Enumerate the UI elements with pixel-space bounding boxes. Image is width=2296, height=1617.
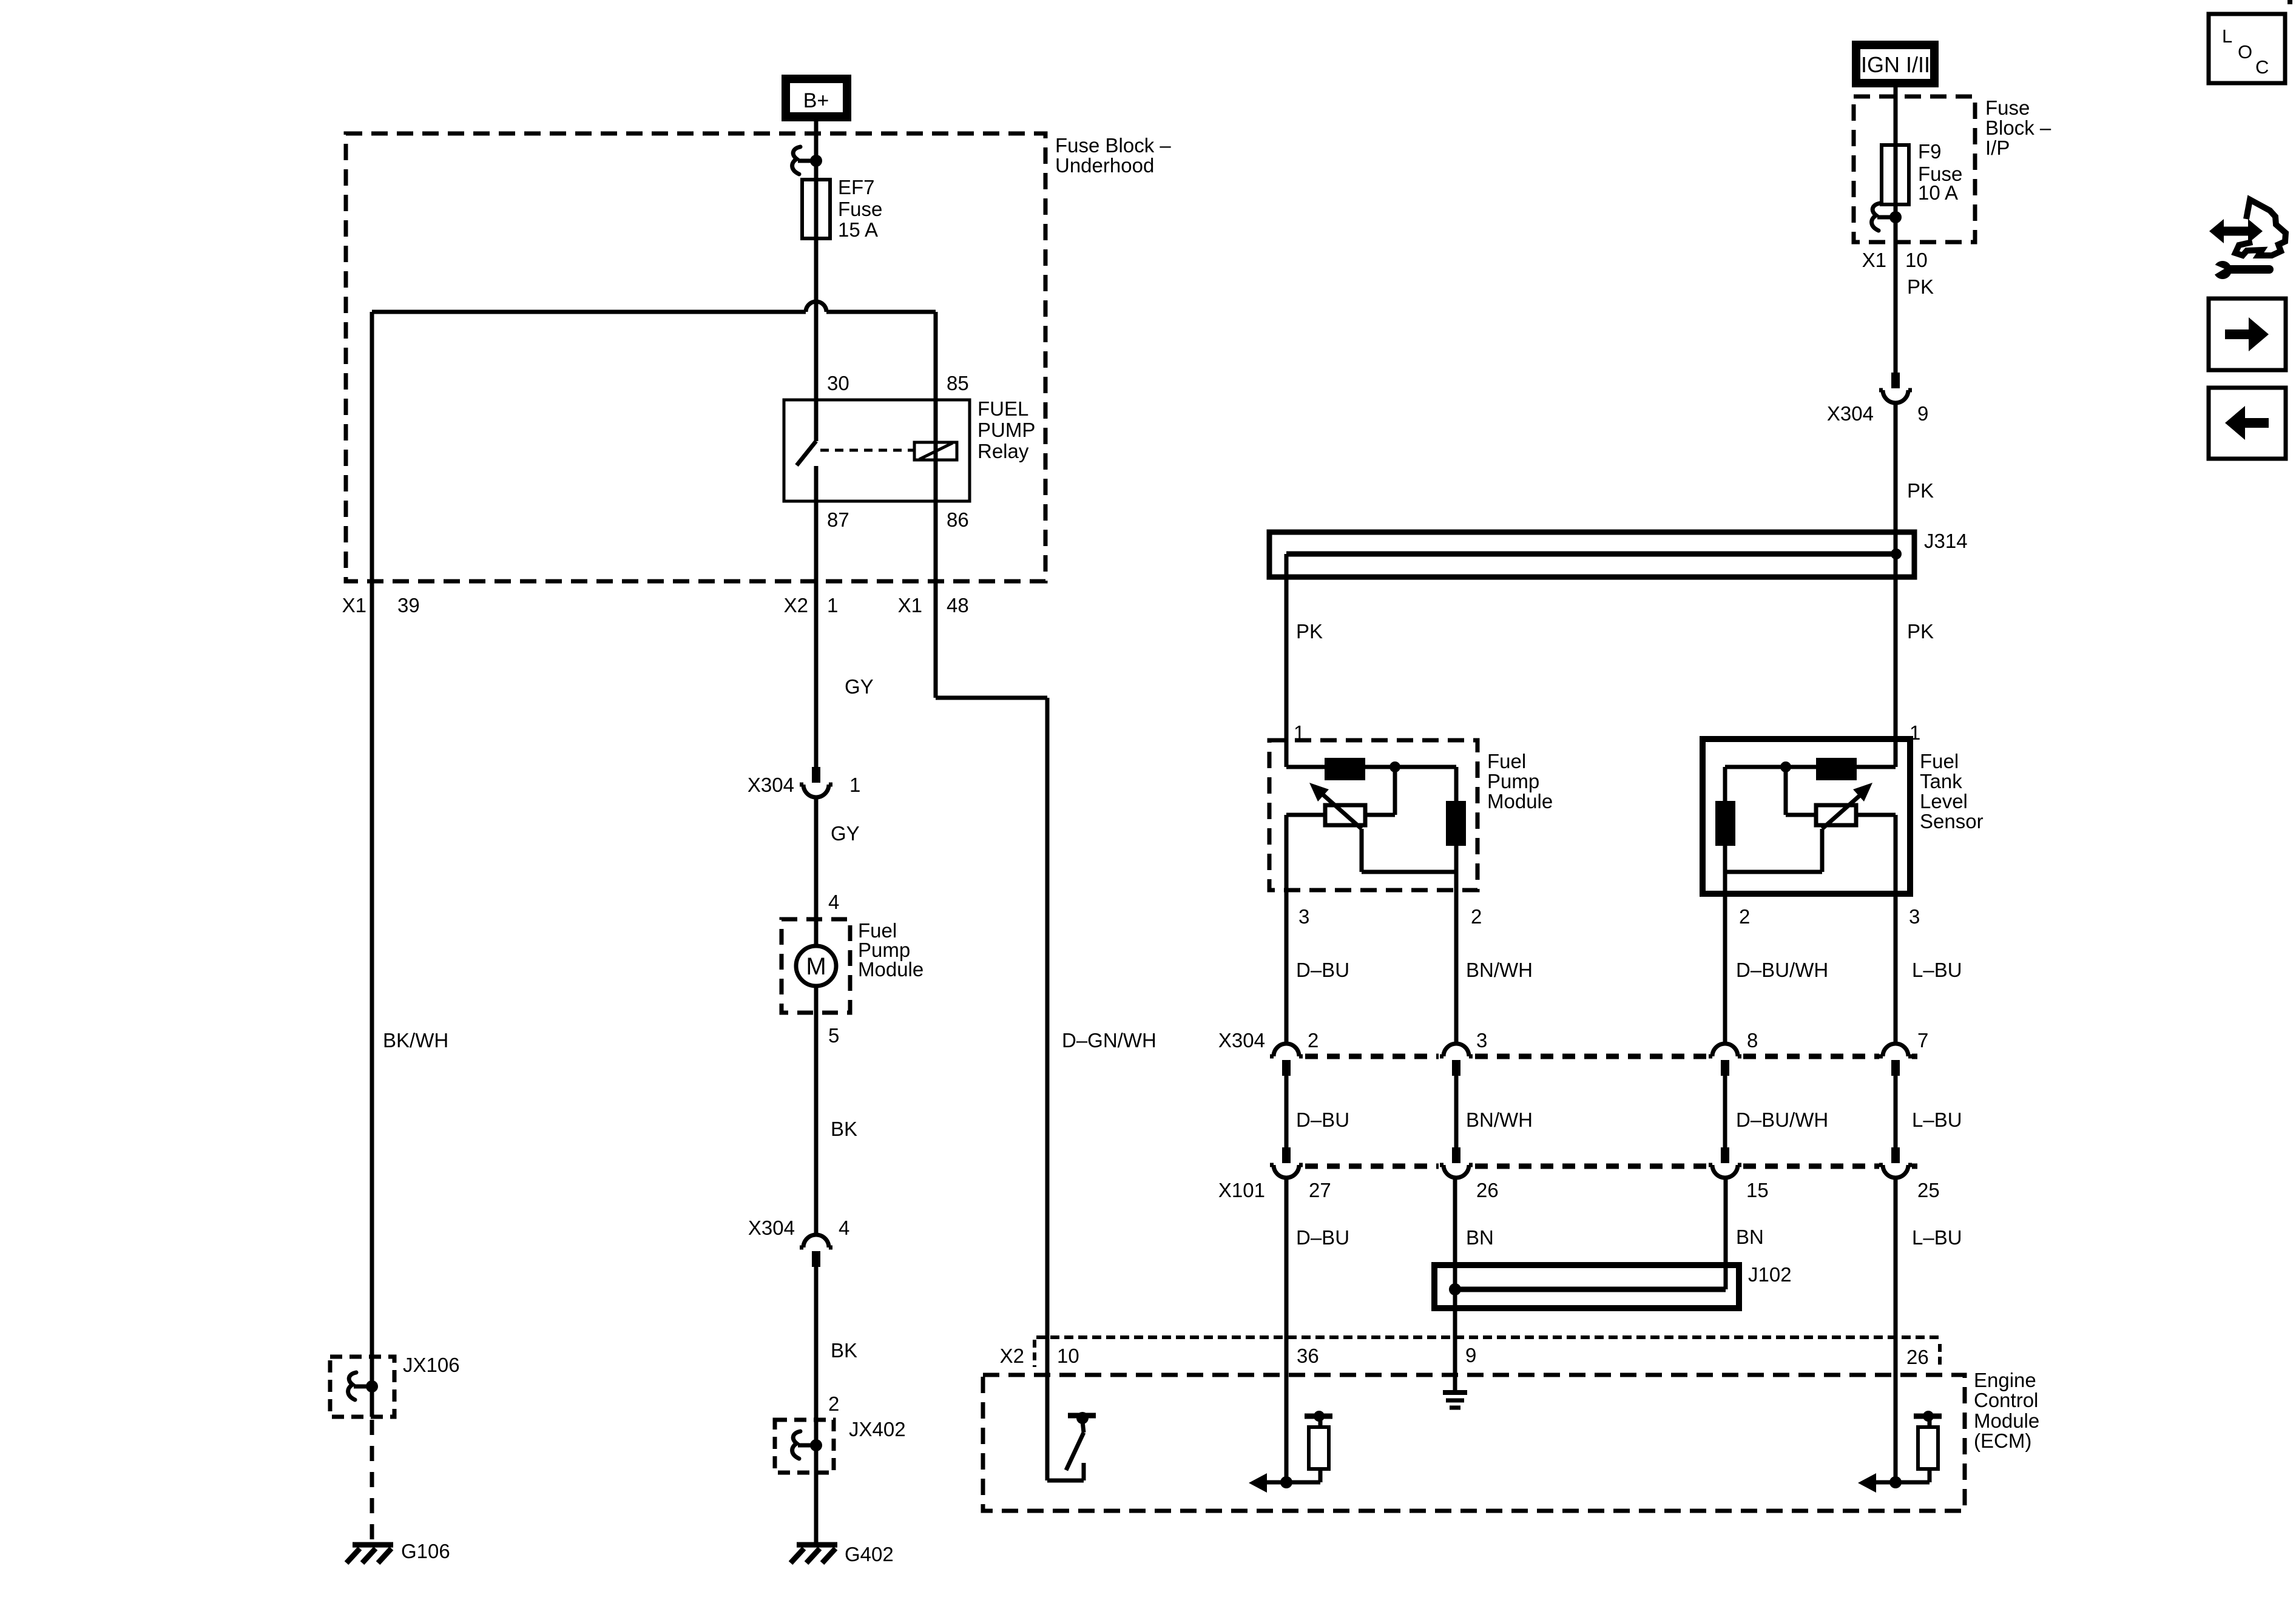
svg-text:5: 5 (828, 1024, 839, 1047)
svg-text:Level: Level (1920, 790, 1968, 812)
svg-text:85: 85 (947, 372, 969, 394)
svg-text:2: 2 (1471, 905, 1482, 928)
svg-text:(ECM): (ECM) (1974, 1430, 2031, 1452)
svg-text:L–BU: L–BU (1912, 1226, 1962, 1249)
svg-text:Fuel: Fuel (1920, 750, 1959, 772)
svg-text:PK: PK (1296, 620, 1323, 643)
svg-text:PK: PK (1907, 479, 1934, 502)
svg-text:26: 26 (1476, 1179, 1499, 1201)
svg-text:GY: GY (831, 822, 860, 845)
svg-text:C: C (2255, 56, 2269, 78)
svg-text:Engine: Engine (1974, 1369, 2036, 1391)
svg-text:39: 39 (397, 594, 420, 616)
svg-text:1: 1 (827, 594, 838, 616)
svg-text:G402: G402 (845, 1543, 894, 1565)
svg-text:10: 10 (1057, 1345, 1079, 1367)
svg-text:87: 87 (827, 508, 849, 531)
svg-text:D–BU: D–BU (1296, 1226, 1349, 1249)
svg-text:X2: X2 (784, 594, 808, 616)
svg-text:D–GN/WH: D–GN/WH (1062, 1029, 1156, 1052)
svg-text:BN/WH: BN/WH (1466, 1109, 1533, 1131)
svg-text:Pump: Pump (1487, 770, 1539, 792)
svg-text:J102: J102 (1748, 1263, 1792, 1286)
svg-text:BN: BN (1736, 1226, 1764, 1248)
svg-text:JX106: JX106 (403, 1354, 460, 1376)
svg-text:26: 26 (1906, 1346, 1929, 1368)
svg-text:PK: PK (1907, 620, 1934, 643)
svg-text:BK/WH: BK/WH (383, 1029, 448, 1052)
svg-text:BK: BK (831, 1339, 857, 1362)
svg-text:X304: X304 (748, 774, 794, 796)
svg-text:Underhood: Underhood (1055, 154, 1154, 177)
svg-text:X304: X304 (1218, 1029, 1265, 1052)
svg-text:4: 4 (828, 891, 839, 913)
svg-text:27: 27 (1309, 1179, 1331, 1201)
svg-text:L: L (2222, 25, 2232, 47)
svg-text:Control: Control (1974, 1389, 2038, 1411)
svg-text:7: 7 (1917, 1029, 1928, 1052)
svg-text:D–BU: D–BU (1296, 1109, 1349, 1131)
svg-text:L–BU: L–BU (1912, 1109, 1962, 1131)
svg-text:D–BU/WH: D–BU/WH (1736, 1109, 1828, 1131)
svg-text:X1: X1 (342, 594, 366, 616)
svg-text:Relay: Relay (977, 440, 1029, 462)
svg-text:9: 9 (1917, 402, 1928, 425)
svg-text:X101: X101 (1218, 1179, 1265, 1201)
svg-text:IGN I/II: IGN I/II (1861, 52, 1930, 77)
svg-text:30: 30 (827, 372, 849, 394)
svg-text:86: 86 (947, 508, 969, 531)
svg-text:EF7: EF7 (838, 176, 875, 198)
svg-text:BN: BN (1466, 1226, 1494, 1249)
svg-text:BN/WH: BN/WH (1466, 959, 1533, 981)
svg-text:3: 3 (1909, 905, 1920, 928)
svg-text:Module: Module (1487, 790, 1553, 812)
svg-text:10 A: 10 A (1918, 181, 1958, 204)
svg-text:Module: Module (1974, 1409, 2039, 1432)
svg-text:BK: BK (831, 1118, 857, 1140)
svg-text:I/P: I/P (1985, 137, 2010, 159)
svg-text:Fuel: Fuel (1487, 750, 1526, 772)
svg-text:X1: X1 (898, 594, 922, 616)
svg-text:48: 48 (947, 594, 969, 616)
svg-text:X2: X2 (1000, 1345, 1024, 1367)
svg-text:1: 1 (849, 774, 860, 796)
svg-text:3: 3 (1476, 1029, 1487, 1052)
svg-text:Tank: Tank (1920, 770, 1962, 792)
svg-text:X304: X304 (748, 1217, 795, 1239)
svg-text:36: 36 (1297, 1345, 1319, 1367)
svg-text:25: 25 (1917, 1179, 1940, 1201)
svg-text:3: 3 (1298, 905, 1309, 928)
svg-text:2: 2 (1739, 905, 1750, 928)
svg-text:Fuse: Fuse (838, 198, 882, 220)
svg-text:9: 9 (1465, 1344, 1476, 1366)
svg-text:M: M (806, 953, 826, 980)
svg-text:Fuse Block –: Fuse Block – (1055, 134, 1171, 157)
svg-text:X1: X1 (1862, 249, 1886, 271)
svg-text:Fuse: Fuse (1985, 96, 2030, 119)
svg-text:B+: B+ (803, 89, 829, 112)
svg-text:D–BU/WH: D–BU/WH (1736, 959, 1828, 981)
svg-text:JX402: JX402 (849, 1418, 906, 1440)
svg-text:GY: GY (845, 675, 874, 698)
svg-text:PUMP: PUMP (977, 419, 1035, 441)
svg-text:F9: F9 (1918, 140, 1942, 163)
svg-text:Sensor: Sensor (1920, 810, 1984, 832)
svg-text:J314: J314 (1924, 530, 1968, 552)
svg-text:15: 15 (1746, 1179, 1769, 1201)
svg-text:G106: G106 (401, 1540, 450, 1562)
svg-text:10: 10 (1905, 249, 1928, 271)
svg-text:FUEL: FUEL (977, 397, 1028, 420)
svg-text:O: O (2238, 41, 2252, 62)
svg-text:8: 8 (1747, 1029, 1758, 1052)
svg-text:Block –: Block – (1985, 116, 2051, 139)
svg-text:X304: X304 (1827, 402, 1874, 425)
svg-text:2: 2 (828, 1393, 839, 1415)
svg-text:D–BU: D–BU (1296, 959, 1349, 981)
svg-text:Module: Module (858, 958, 923, 981)
svg-text:PK: PK (1907, 275, 1934, 298)
svg-text:L–BU: L–BU (1912, 959, 1962, 981)
svg-text:4: 4 (839, 1217, 849, 1239)
svg-text:2: 2 (1308, 1029, 1319, 1052)
svg-text:15 A: 15 A (838, 218, 878, 241)
